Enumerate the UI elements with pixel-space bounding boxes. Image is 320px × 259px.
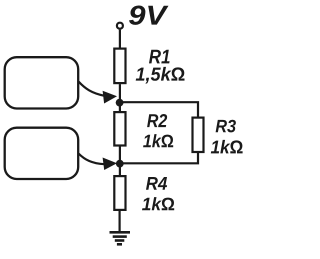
wire R4 to ground bbox=[118, 210, 120, 231]
value 1kOhm R3 bbox=[211, 140, 243, 154]
wire node A to R3 top bbox=[120, 102, 198, 117]
value 1kOhm R4 bbox=[142, 197, 174, 210]
value 1,5kOhm bbox=[136, 67, 185, 84]
wire R2 to node B bbox=[119, 147, 121, 177]
label 9V bbox=[129, 6, 169, 25]
wire R1 to node A bbox=[119, 84, 121, 112]
label R3 bbox=[216, 120, 236, 133]
label R4 bbox=[146, 177, 167, 190]
supply terminal 9V bbox=[117, 23, 123, 29]
resistor R2 bbox=[114, 112, 125, 145]
resistor R1 bbox=[114, 49, 125, 84]
resistor R3 bbox=[193, 118, 204, 152]
ground bbox=[110, 232, 131, 244]
arrow from box 1 to node A bbox=[79, 82, 118, 104]
value 1kOhm R2 bbox=[143, 134, 173, 147]
resistor R4 bbox=[114, 176, 125, 210]
wire terminal to R1 bbox=[119, 30, 121, 49]
label R1 bbox=[149, 50, 170, 64]
callout box 1 bbox=[5, 57, 79, 108]
label R2 bbox=[147, 114, 167, 127]
callout box 2 bbox=[5, 128, 79, 179]
arrow from box 2 to node B bbox=[79, 154, 118, 171]
node B junction bbox=[116, 160, 124, 168]
node A junction bbox=[116, 99, 124, 107]
wire node B to R3 bottom bbox=[120, 152, 198, 163]
